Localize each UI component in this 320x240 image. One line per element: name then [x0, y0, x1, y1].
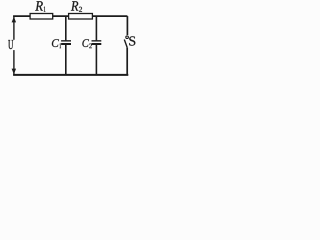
capacitor C2 top plate	[92, 40, 102, 42]
resistor R1	[30, 14, 53, 20]
capacitor C1 top plate	[61, 40, 71, 42]
capacitor C1 bottom plate	[61, 43, 71, 45]
label U	[8, 40, 13, 49]
wire bottom rail	[13, 74, 128, 76]
capacitor C1 lead lower	[65, 45, 67, 75]
label R1	[35, 1, 43, 10]
capacitor C2 lead lower	[95, 45, 97, 75]
voltage U arrowhead up	[12, 17, 17, 23]
label R2	[71, 1, 78, 10]
wire left rail lower segment	[13, 50, 15, 75]
label C2	[82, 39, 89, 47]
wire left rail upper segment	[13, 16, 15, 40]
resistor R2	[69, 14, 93, 20]
switch S contact circle	[126, 36, 129, 39]
label S	[129, 36, 135, 45]
wire right rail upper	[126, 16, 128, 35]
switch S blade	[124, 40, 127, 48]
capacitor C1 lead upper	[65, 16, 67, 40]
voltage U arrowhead down	[12, 69, 17, 75]
wire right rail lower	[126, 47, 128, 75]
wire top rail	[13, 15, 127, 17]
capacitor C2 bottom plate	[92, 43, 102, 45]
label C1	[52, 39, 59, 47]
capacitor C2 lead upper	[95, 16, 97, 40]
